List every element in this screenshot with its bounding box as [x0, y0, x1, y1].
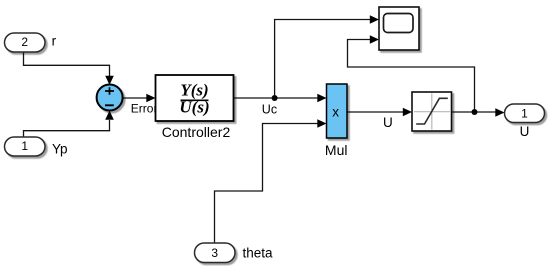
- svg-text:U(s): U(s): [179, 98, 209, 117]
- svg-text:theta: theta: [243, 245, 274, 260]
- sum plus sign: [105, 87, 114, 94]
- svg-text:2: 2: [21, 35, 28, 49]
- svg-text:r: r: [52, 34, 57, 49]
- wire inport 3 (theta) to Mul input 2: [215, 124, 319, 244]
- arrowhead into Mul in1: [317, 94, 326, 103]
- arrowhead into sum bottom: [105, 111, 114, 120]
- scope screen: [384, 14, 414, 33]
- svg-text:3: 3: [211, 246, 218, 260]
- outport 1: [505, 104, 545, 123]
- node junction dot before outport: [472, 109, 478, 115]
- sum block: [97, 85, 123, 111]
- wire junction to Scope input 2: [348, 40, 475, 111]
- arrowhead into Mul in2: [317, 119, 326, 128]
- saturation block: [412, 92, 452, 131]
- arrowhead into Controller2: [146, 94, 155, 103]
- inport 2: [5, 33, 46, 52]
- sum minus sign: [105, 104, 114, 106]
- wire Mul to Saturation (U signal): [347, 111, 404, 113]
- transfer-function block Controller2: [156, 75, 234, 121]
- wire Controller2 to Mul input 1 (Uc signal): [234, 97, 319, 99]
- svg-text:U: U: [383, 115, 393, 130]
- wire from inport 1 (Yp) to sum block bottom: [24, 120, 110, 137]
- saturation curve: [416, 98, 448, 124]
- saturation axes: [414, 94, 450, 130]
- svg-text:Error: Error: [131, 102, 158, 116]
- arrowhead into Scope in2: [370, 35, 379, 44]
- node Uc junction dot: [272, 95, 278, 101]
- arrowhead into Scope in1: [370, 15, 379, 24]
- svg-text:1: 1: [521, 107, 528, 121]
- svg-text:U: U: [520, 124, 530, 139]
- inport 3: [195, 243, 236, 263]
- arrowhead into Saturation: [403, 108, 412, 117]
- wire Uc node to Scope input 1: [275, 20, 371, 97]
- wire from inport 2 to sum block: [24, 52, 110, 76]
- svg-text:x: x: [332, 105, 339, 120]
- svg-text:Mul: Mul: [325, 142, 348, 158]
- wire Saturation to outport 1: [452, 111, 497, 113]
- svg-text:Controller2: Controller2: [162, 124, 231, 140]
- scope block: [379, 7, 419, 50]
- product block Mul: [327, 84, 348, 138]
- wire sum to Controller2 (Error signal): [123, 97, 147, 99]
- svg-text:Uc: Uc: [262, 102, 277, 116]
- svg-text:1: 1: [21, 139, 28, 153]
- svg-text:Yp: Yp: [52, 142, 68, 157]
- inport 1: [5, 137, 46, 156]
- fraction bar: [181, 99, 209, 101]
- arrowhead into sum top: [105, 76, 114, 85]
- arrowhead into outport: [495, 108, 504, 117]
